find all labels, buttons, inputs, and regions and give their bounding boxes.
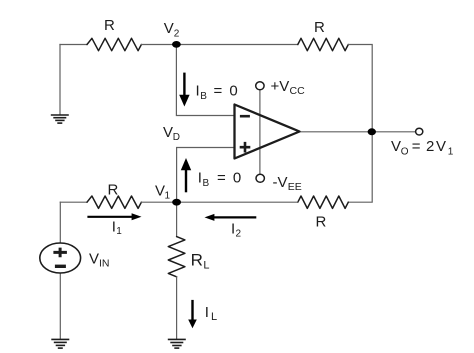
wire op-amp output to terminal <box>300 131 416 133</box>
supply line through op-amp <box>259 90 261 174</box>
svg-text:2: 2 <box>174 29 180 40</box>
svg-text:-V: -V <box>273 174 288 191</box>
wire V1 node to feedback resistor <box>177 201 298 203</box>
svg-text:2: 2 <box>236 229 242 240</box>
node V2 <box>172 41 181 48</box>
terminal output <box>416 128 423 135</box>
svg-text:CC: CC <box>290 85 306 97</box>
wire V2 down and to inverting input <box>176 45 233 116</box>
wire output node down to feedback resistor <box>348 132 372 202</box>
svg-text:B: B <box>203 178 210 189</box>
node output <box>368 128 376 135</box>
svg-text:EE: EE <box>288 181 302 193</box>
op-amp U1 <box>235 105 300 159</box>
svg-text:O: O <box>401 147 409 158</box>
wire V2 to top-right resistor <box>141 44 297 46</box>
svg-text:2V: 2V <box>426 138 448 155</box>
svg-text:1: 1 <box>165 191 171 202</box>
svg-text:+V: +V <box>271 78 290 95</box>
arrow I2 <box>205 214 257 221</box>
svg-text:R: R <box>104 17 115 34</box>
wire V1 node down to RL <box>176 202 178 236</box>
source VIN <box>40 243 81 273</box>
arrow I1 <box>87 213 141 220</box>
svg-text:I: I <box>196 83 200 100</box>
svg-text:1: 1 <box>448 147 454 158</box>
arrow IB bottom <box>181 158 191 192</box>
svg-text:V: V <box>163 124 173 141</box>
resistor RL <box>168 237 185 277</box>
ground RL <box>168 339 186 348</box>
svg-text:L: L <box>211 311 217 323</box>
wire RL down to ground <box>176 277 178 339</box>
wire top horizontal left segment <box>60 44 87 46</box>
svg-text:=: = <box>412 138 421 155</box>
svg-text:V: V <box>155 183 165 200</box>
svg-text:R: R <box>108 182 119 199</box>
wire VIN bottom to ground <box>59 273 61 339</box>
wire top-right corner down to output node <box>348 45 372 132</box>
terminal +VCC <box>256 82 264 90</box>
resistor R bottom-left <box>87 196 141 208</box>
svg-text:I: I <box>198 170 202 187</box>
svg-text:V: V <box>164 20 174 37</box>
svg-text:R: R <box>314 19 325 36</box>
svg-text:L: L <box>203 260 209 272</box>
arrow IB top <box>179 73 189 107</box>
svg-text:IN: IN <box>99 258 110 270</box>
svg-text:V: V <box>89 251 99 268</box>
arrow IL <box>188 300 197 328</box>
resistor R top-left <box>87 38 141 50</box>
resistor R bottom feedback <box>298 196 349 208</box>
wire top-left vertical to ground <box>59 45 61 115</box>
svg-text:R: R <box>191 251 203 270</box>
svg-text:V: V <box>391 138 401 155</box>
terminal -VEE <box>256 174 264 182</box>
node V1 <box>172 199 181 206</box>
wire V1 up and to non-inverting input <box>177 148 234 203</box>
resistor R top-right <box>298 38 349 50</box>
svg-text:1: 1 <box>116 226 122 237</box>
svg-text:= 0: = 0 <box>214 83 240 100</box>
svg-text:R: R <box>316 214 327 231</box>
ground VIN <box>51 339 69 348</box>
svg-text:B: B <box>200 91 207 102</box>
wire R to V1 node <box>141 201 176 203</box>
svg-text:= 0: = 0 <box>217 170 243 187</box>
ground top-left <box>51 115 69 123</box>
wire VIN top <box>59 202 61 243</box>
wire bottom-left horizontal <box>60 201 87 203</box>
svg-text:D: D <box>173 132 180 143</box>
svg-text:I: I <box>205 304 209 321</box>
